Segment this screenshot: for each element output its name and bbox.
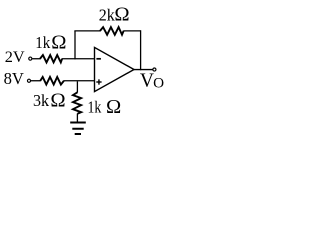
wire 2V terminal to R1	[32, 58, 40, 60]
resistor R2 2kohm feedback	[100, 27, 124, 35]
wire feedback top right	[123, 30, 140, 32]
label 1kOhm R1	[35, 31, 66, 53]
label VO output voltage	[140, 71, 164, 92]
svg-text:Ω: Ω	[114, 3, 129, 25]
op-amp U1	[95, 47, 135, 91]
node B noninverting junction / wire ground branch riser	[76, 81, 78, 92]
label 3kOhm R3	[33, 90, 66, 112]
svg-text:O: O	[153, 75, 164, 92]
svg-text:3k: 3k	[33, 91, 50, 110]
ground	[70, 123, 86, 135]
wire R3 to noninverting input	[64, 80, 95, 82]
output terminal	[153, 68, 156, 71]
wire R1 to inverting input node	[62, 58, 95, 60]
wire R4 to ground	[76, 114, 78, 123]
svg-text:1k: 1k	[35, 33, 51, 52]
source terminal 8V	[27, 79, 30, 82]
wire feedback dropper to output	[140, 30, 142, 70]
svg-text:V: V	[140, 71, 154, 92]
resistor R1 1kohm (2V input)	[40, 55, 62, 62]
op-amp noninverting pin mark	[96, 79, 101, 84]
wire 8V terminal to R3	[31, 80, 41, 82]
svg-text:2k: 2k	[99, 5, 116, 24]
label 1kOhm R4	[88, 96, 122, 118]
svg-text:Ω: Ω	[51, 31, 66, 53]
wire feedback top left	[74, 30, 100, 32]
wire op-amp output	[134, 69, 153, 71]
svg-text:8V: 8V	[4, 69, 24, 88]
node A inverting input junction / wire feedback riser	[74, 31, 76, 60]
label 2kOhm R2	[99, 3, 130, 25]
svg-text:Ω: Ω	[106, 96, 121, 118]
source terminal 2V	[29, 57, 32, 60]
svg-text:2V: 2V	[5, 47, 25, 66]
svg-text:1k: 1k	[88, 97, 102, 116]
resistor R3 3kohm (8V input)	[40, 77, 64, 85]
resistor R4 1kohm to ground	[73, 92, 81, 113]
svg-text:Ω: Ω	[50, 90, 65, 112]
op-amp inverting pin mark	[96, 58, 101, 60]
